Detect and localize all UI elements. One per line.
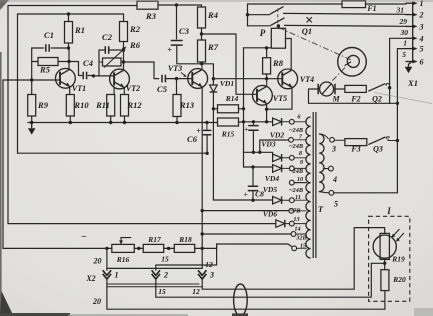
svg-text:VD4: VD4 (265, 174, 279, 183)
node VD2 row emitter (265, 120, 268, 123)
ground (31, 123, 33, 129)
wire C2 R6 left column (98, 50, 100, 76)
node R11 bottom (109, 121, 112, 124)
resistor R18 (174, 244, 194, 252)
wire VT5 emitter down (266, 104, 268, 122)
wire R18 to jog (195, 247, 217, 249)
svg-text:R12: R12 (126, 100, 142, 110)
svg-text:~24В: ~24В (289, 143, 303, 150)
wire C6 bottom stem (206, 135, 208, 154)
node emitters join (265, 108, 268, 111)
svg-text:VD2: VD2 (270, 131, 284, 140)
wire mid feedback row (18, 152, 208, 154)
svg-text:M: M (331, 95, 340, 104)
svg-text:12: 12 (192, 287, 200, 296)
svg-text:VT1: VT1 (72, 84, 86, 93)
scan scratch line (374, 93, 432, 104)
svg-text:+: + (196, 127, 201, 136)
wire VT2 collector to C5 (124, 62, 159, 79)
node R13 top (175, 77, 178, 80)
wire R8 top lead (266, 48, 268, 58)
wire C6 top stem (206, 123, 208, 131)
motor M slash (322, 84, 331, 94)
wire below pins b (107, 286, 202, 288)
svg-text:R8: R8 (272, 58, 284, 68)
connector X1 pin 2 (406, 14, 415, 16)
wire C8 bottom stem (252, 191, 254, 201)
VT3 pointer arrow (181, 73, 186, 77)
wire VT5 collector to node (266, 79, 268, 86)
governor (centrifugal regulator) outer circle (338, 48, 367, 77)
wire pin3 to lamp top (202, 228, 384, 290)
motor M terminal bars (318, 84, 335, 94)
resistor R12 (121, 95, 129, 117)
wire primary bottom to tap5 (319, 192, 329, 193)
wire R7 bottom lead (201, 62, 203, 64)
wire tap3 to F3 (334, 139, 345, 141)
svg-text:R13: R13 (179, 100, 195, 110)
node R18 right (201, 247, 204, 250)
svg-text:C5: C5 (157, 84, 168, 94)
node transformer tap 5 (329, 190, 334, 195)
wire VD6 row (8, 223, 276, 225)
node C2 right (122, 48, 125, 51)
node R4 R7 junction (200, 32, 203, 35)
wire collector node to VD1 node (202, 64, 214, 79)
wire pin1 top stub (106, 248, 108, 270)
wire VT4 collector stub (291, 69, 293, 71)
wire left outer vertical (7, 6, 9, 224)
node transformer tap 4 (329, 166, 334, 171)
wire R9 R10 bottom leads (32, 116, 71, 123)
fuse F3 (345, 139, 367, 146)
wire bottom common rail (28, 122, 207, 124)
svg-text:R17: R17 (147, 235, 161, 244)
wire R5 leads and collector column (32, 48, 69, 68)
switch Q1 contact 2 (271, 18, 285, 26)
resistor R7 (198, 40, 206, 62)
wire primary top to tap3 (319, 134, 328, 139)
connector X1 pin 4 (406, 37, 415, 39)
svg-text:C6: C6 (187, 134, 198, 144)
svg-text:3: 3 (419, 22, 424, 31)
diode VD6 (276, 220, 285, 228)
capacitor C7 (248, 126, 258, 131)
wire Q1 pole3 left (248, 25, 271, 27)
wire tap stub (293, 139, 306, 141)
relay coil P (271, 28, 285, 48)
switch Q3 (368, 137, 385, 145)
ground arrow X1 (405, 67, 413, 73)
svg-text:13: 13 (293, 216, 299, 223)
wire tap stub (294, 167, 306, 169)
svg-text:2: 2 (419, 11, 424, 20)
svg-text:R19: R19 (391, 255, 405, 264)
wire VT1 collector stub (68, 68, 70, 69)
cable bundle marker (234, 284, 248, 316)
svg-text:I: I (386, 206, 391, 216)
svg-text:R15: R15 (221, 130, 235, 139)
wire Q1 feed bus (247, 4, 249, 26)
wire R1 leads (68, 14, 70, 48)
resistor R19 (barretter) (380, 233, 389, 259)
variable resistor R16 wiper (121, 238, 131, 243)
transistor VT5 (253, 85, 273, 105)
wire P bottom row (244, 47, 272, 49)
capacitor C8 (248, 186, 258, 190)
svg-text:R4: R4 (207, 10, 218, 20)
wire lamp bottom stub (384, 259, 386, 269)
wire tap 32V row (202, 233, 291, 235)
wire VD3 to tap8 (283, 157, 290, 159)
wire drive row to VT4 base (213, 78, 282, 80)
resistor R3 (137, 1, 158, 9)
svg-text:+: + (167, 46, 172, 55)
node R8 top (265, 46, 268, 49)
node VD1 top (212, 77, 215, 80)
diode VD2 (273, 118, 282, 126)
svg-text:10: 10 (297, 176, 304, 183)
wire X1 pin5 bus (397, 49, 406, 193)
svg-text:~24В: ~24В (289, 168, 303, 175)
svg-text:–: – (81, 231, 87, 241)
transformer T left winding (306, 117, 311, 258)
wire F1 to X1 pin1 (366, 3, 407, 5)
fuse F2 (345, 85, 366, 92)
capacitor C3 (171, 41, 183, 46)
mechanical link to governor dash-dot (279, 28, 353, 61)
node lamp bottom (383, 262, 386, 265)
connector X1 pin 3 (406, 25, 415, 27)
svg-text:14: 14 (294, 226, 300, 233)
svg-text:4: 4 (332, 175, 337, 184)
SEC2 (202, 1, 407, 204)
svg-text:~24В: ~24В (289, 187, 303, 194)
node transformer tap 15 (292, 246, 297, 251)
diode VD1 (210, 85, 218, 92)
svg-text:R18: R18 (178, 235, 192, 244)
svg-text:F1: F1 (366, 4, 376, 13)
svg-text:VT2: VT2 (126, 84, 140, 93)
wire R15 leads (207, 121, 244, 124)
node R5 right (67, 60, 70, 63)
wire R13 top lead (176, 79, 178, 95)
wire P to VT4 collector (286, 39, 292, 70)
wire tap stub (296, 233, 306, 235)
svg-text:11: 11 (295, 194, 301, 201)
node transformer tap 14 (289, 221, 294, 226)
wire tap 7 stub (260, 140, 289, 152)
ground arrow (28, 128, 36, 134)
svg-text:C4: C4 (83, 58, 93, 68)
mechanical link Q1 dashes (277, 9, 279, 28)
svg-text:VD1: VD1 (220, 79, 234, 88)
wire C5 to VT3 base (165, 78, 192, 80)
svg-text:5: 5 (402, 50, 406, 59)
dashed enclosure I (369, 216, 410, 301)
node P top (277, 24, 280, 27)
connector X1 rail (412, 2, 414, 62)
wire left inner vertical (17, 14, 19, 153)
node VT4 base (265, 77, 268, 80)
resistor R1 (65, 22, 73, 44)
wire to C4 (69, 62, 82, 76)
wire VD1 column (212, 79, 214, 200)
resistor R8 (263, 58, 271, 74)
wire VD2 to tap6 (283, 121, 290, 123)
svg-text:R14: R14 (225, 94, 239, 103)
svg-text:VT3: VT3 (168, 64, 182, 73)
wire C7 top stem (252, 122, 254, 126)
capacitor C6 (203, 130, 212, 134)
svg-text:VD5: VD5 (263, 185, 277, 194)
resistor R16 (variable) (112, 244, 135, 252)
svg-text:R7: R7 (207, 42, 219, 52)
connector X1 pin 6 (406, 61, 415, 63)
wire VT4 emitter down (267, 87, 292, 109)
wire R6 left lead (99, 61, 103, 63)
wire R13 bottom lead (176, 117, 178, 123)
svg-text:Q1: Q1 (302, 26, 312, 36)
switch Q2 (368, 84, 385, 92)
svg-text:VT4: VT4 (300, 75, 314, 84)
svg-text:+: + (243, 190, 247, 199)
svg-text:12: 12 (205, 260, 213, 269)
wire 30 to X1 pin3 (285, 24, 407, 27)
node 32V row (201, 232, 204, 235)
switch Q1 off-mark cross (307, 17, 312, 22)
wire C7 bottom stem (252, 130, 254, 152)
SEC3 (289, 0, 432, 258)
illumination arrows (393, 229, 405, 241)
svg-text:F2: F2 (350, 95, 360, 104)
wire primary mid tap 4 (324, 168, 329, 170)
wire bus to tap 5 (334, 192, 398, 194)
svg-text:20: 20 (93, 257, 102, 266)
svg-text:R1: R1 (74, 25, 85, 35)
resistor R10 (66, 95, 74, 117)
svg-text:+: + (244, 125, 248, 134)
wire tap 7B row (202, 210, 289, 212)
svg-text:15: 15 (300, 243, 306, 250)
node C7 bottom (252, 151, 255, 154)
transformer T right winding (319, 134, 324, 192)
node transformer tap 7 (289, 137, 294, 142)
wire R16 R17 link (134, 247, 143, 249)
svg-text:P: P (260, 28, 266, 38)
svg-text:15: 15 (161, 255, 169, 264)
node transformer tap 32V (291, 232, 296, 237)
connector X2 pin 1 (103, 270, 111, 279)
wire VT3 collector stub (201, 64, 203, 69)
svg-text:C3: C3 (179, 26, 190, 36)
capacitor C1 (46, 44, 49, 52)
fuse F1 (342, 1, 366, 8)
wire rectifier row 2 (244, 167, 273, 168)
svg-text:20: 20 (92, 297, 101, 306)
svg-text:15: 15 (158, 287, 166, 296)
svg-text:R3: R3 (145, 11, 157, 21)
node R17 R18 (167, 247, 170, 250)
wire R2 bottom to VT2 collector (123, 42, 125, 70)
svg-text:5: 5 (420, 45, 424, 54)
node ground rail (30, 121, 33, 124)
wire tap stub (294, 210, 307, 212)
connector X1 pin 5 (406, 48, 415, 50)
capacitor C5 (162, 75, 165, 83)
node R14 left (212, 107, 215, 110)
svg-text:VD3: VD3 (261, 140, 275, 149)
transistor VT3 (188, 69, 208, 89)
wire VT1 base feedback row (3, 79, 60, 81)
node transformer tap 3 (330, 137, 335, 142)
wire pin2 to lamp bottom (156, 263, 371, 297)
wire supply row left (3, 247, 112, 249)
wire R11 R12 bottom leads (111, 116, 125, 123)
node X2 pin1 top (105, 247, 108, 250)
wire VD5 to tap11 (283, 199, 290, 201)
wire top rail left (8, 5, 137, 7)
resistor R20 (381, 270, 389, 291)
node R15 right (242, 120, 245, 123)
node VT1 collector top (67, 46, 70, 49)
svg-text:29: 29 (399, 17, 408, 26)
node transformer tap 10 (289, 180, 294, 185)
svg-text:3: 3 (331, 145, 336, 154)
svg-text:R6: R6 (129, 40, 141, 50)
resistor R11 (107, 95, 115, 117)
wire R8 bottom lead (266, 74, 268, 79)
connector X1 pin 1 (406, 2, 415, 4)
governor pointer (345, 62, 351, 66)
node R14 right (242, 107, 245, 110)
node transformer tap 11 (289, 198, 294, 203)
wire Q1 pole2 left (248, 14, 270, 16)
resistor R6 (103, 58, 122, 66)
svg-text:C1: C1 (44, 30, 54, 40)
svg-text:X2: X2 (85, 274, 95, 283)
wire rectifier row 1 (244, 152, 273, 158)
node R12 bottom (123, 121, 126, 124)
wire VT2 emitter to R12 (123, 88, 125, 95)
motor M circle (320, 82, 334, 96)
node C6 top (205, 121, 208, 124)
wire tap 10 stub (294, 182, 306, 184)
svg-text:R11: R11 (95, 100, 110, 110)
capacitor C2 (105, 46, 108, 54)
svg-text:31: 31 (396, 5, 405, 14)
svg-text:VD6: VD6 (263, 210, 277, 219)
node R6 right (122, 60, 125, 63)
node R13 bottom (175, 121, 178, 124)
svg-text:R10: R10 (73, 100, 89, 110)
wire R17 R18 link (164, 247, 175, 249)
wire C4 to VT2 base (88, 75, 93, 77)
wire VT2 base row (94, 75, 115, 77)
SEC4 (3, 88, 410, 316)
diode VD5 (273, 196, 282, 204)
svg-text:4: 4 (419, 34, 424, 43)
wire 20 bottom to R20 (107, 279, 385, 309)
svg-text:3: 3 (209, 271, 214, 280)
node transformer tap 8 (289, 155, 294, 160)
wire motor to F2 (335, 88, 345, 90)
wire tap stub (294, 121, 306, 123)
node C8 bottom (251, 199, 254, 202)
svg-text:1: 1 (403, 39, 407, 48)
wire 15 row to pin2 (156, 244, 217, 270)
transistor VT1 (56, 68, 76, 88)
svg-text:6: 6 (420, 58, 424, 67)
wire supply to tap 15 (217, 244, 292, 248)
wire R2 top lead (123, 14, 125, 22)
wire C8 top stem (252, 167, 254, 186)
node tap7 branch (258, 151, 261, 154)
transistor VT2 (110, 69, 130, 89)
wire 31 to F1 (248, 3, 343, 5)
wire C3 bottom to collector node (177, 45, 202, 64)
node Q2 bus (396, 102, 399, 105)
connector X2 pin 3 (198, 270, 206, 279)
wire left feedback vertical (2, 80, 4, 248)
wire 29 to X1 pin2 (284, 12, 407, 15)
svg-text:F3: F3 (350, 145, 360, 154)
wire VD2 row (244, 121, 273, 123)
wire C1 leads (32, 47, 69, 49)
wire lamp top stub (384, 228, 386, 234)
resistor R9 (28, 95, 36, 117)
wire R4R7 junction to VT5 base (202, 34, 257, 94)
node C3 top junction (175, 3, 178, 6)
svg-text:2: 2 (163, 271, 168, 280)
node transformer tap 9 (289, 166, 294, 171)
node VT2 base left (92, 74, 95, 77)
wire C2 leads (99, 49, 124, 51)
svg-text:R16: R16 (116, 255, 130, 264)
wire below pins a (107, 283, 199, 285)
wire VD4 to tap9 (283, 167, 290, 169)
node transformer tap 6 (289, 119, 294, 124)
wire 12 row to pin3 (107, 267, 202, 269)
wire R14 leads (213, 108, 243, 110)
mechanical link governor to motor dash-dot (332, 68, 345, 82)
wire tap stub (294, 182, 306, 184)
svg-text:R2: R2 (129, 24, 141, 34)
node C7 top (252, 120, 255, 123)
wire rail R1 R2 (18, 13, 124, 15)
node Q1 bus mid (246, 13, 249, 16)
svg-text:32В: 32В (295, 235, 307, 242)
diode VD4 (273, 165, 282, 173)
resistor R15 (218, 118, 239, 126)
wire lamp bottom left (371, 262, 384, 264)
node R16 R17 (137, 247, 140, 250)
wire C1 R5 left column (31, 48, 33, 95)
resistor R14 (218, 105, 239, 113)
svg-text:T: T (318, 204, 324, 214)
wire R4 R7 link (201, 28, 203, 40)
node Q2 contact (388, 86, 391, 89)
diode VD3 (273, 154, 282, 162)
svg-text:30: 30 (400, 28, 409, 37)
wire tap stub (294, 223, 306, 225)
svg-text:Q2: Q2 (372, 95, 382, 104)
node R1 top (67, 12, 70, 15)
wire VT1 emitter to R10 (69, 87, 71, 95)
wire Q3 to bus (388, 139, 397, 141)
wire tap stub (294, 199, 306, 201)
resistor R17 (143, 244, 164, 252)
